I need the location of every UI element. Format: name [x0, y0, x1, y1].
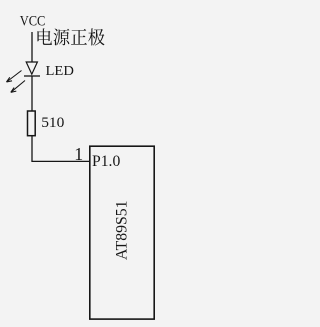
label char 极	[88, 28, 104, 45]
LED emission arrow 2	[11, 81, 25, 93]
LED D1 triangle (anode top)	[26, 62, 37, 74]
label char 正	[71, 29, 87, 45]
svg-text:AT89S51: AT89S51	[113, 201, 130, 261]
label 电源正极 (power supply positive)	[37, 28, 104, 45]
IC U1 AT89S51 body	[90, 146, 154, 319]
label char 电	[37, 28, 52, 45]
wire corner to chip pin 1	[31, 160, 89, 162]
LED emission arrow 1	[7, 71, 22, 83]
wire resistor to corner	[31, 136, 33, 162]
svg-text:VCC: VCC	[20, 12, 46, 28]
svg-text:510: 510	[41, 114, 65, 131]
wire VCC to LED anode	[31, 32, 33, 62]
label char 源	[53, 29, 69, 46]
svg-text:1: 1	[74, 144, 83, 164]
svg-text:P1.0: P1.0	[92, 153, 120, 170]
svg-text:LED: LED	[46, 63, 74, 79]
resistor R1 body	[28, 111, 36, 136]
LED cathode bar	[24, 75, 40, 77]
wire LED cathode to resistor	[31, 76, 33, 111]
